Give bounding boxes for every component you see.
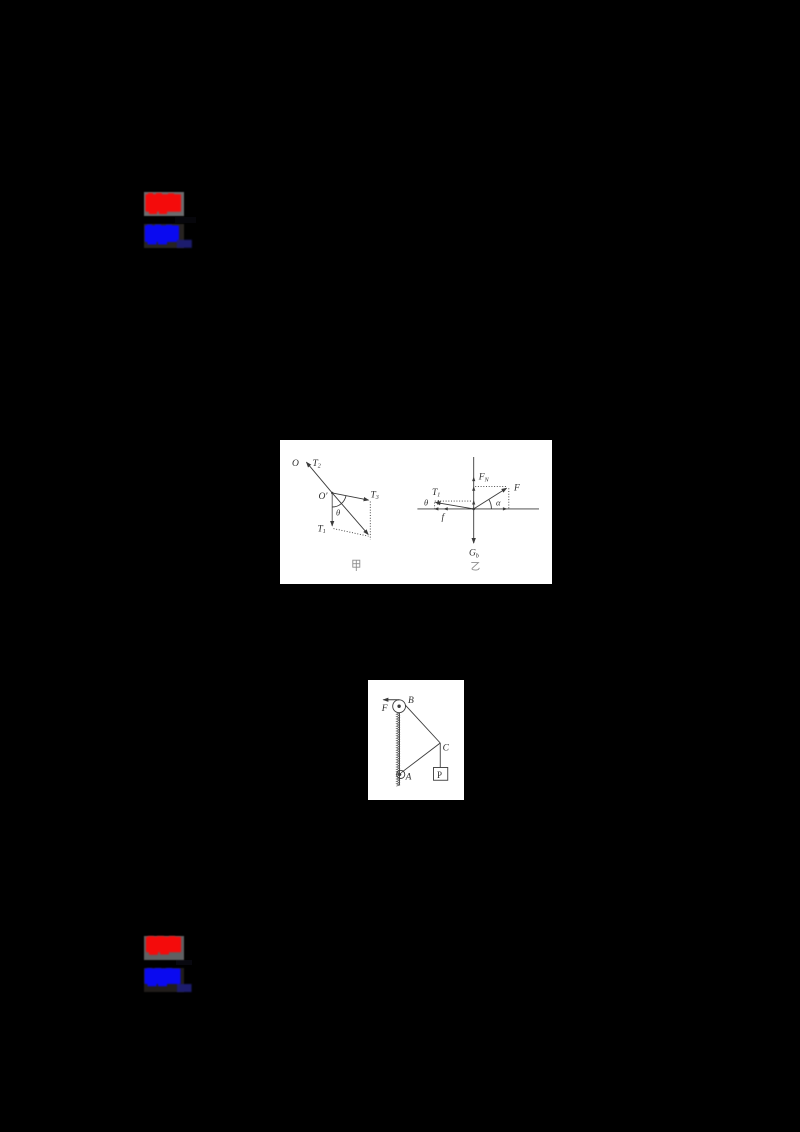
vector T3 (O' to right) <box>332 493 368 500</box>
dotted vertical from T1 tip <box>434 503 436 509</box>
svg-text:FN: FN <box>478 473 490 484</box>
svg-text:O: O <box>292 459 299 469</box>
svg-text:F: F <box>381 704 388 714</box>
arrowhead F horizontal component (right) <box>503 507 508 510</box>
svg-text:T3: T3 <box>371 491 379 502</box>
svg-text:T1: T1 <box>318 525 326 536</box>
navy sub-blob <box>177 240 192 248</box>
node origin dot <box>472 508 475 511</box>
node O' dot <box>331 492 333 494</box>
faint artifact patch bottom <box>176 960 192 965</box>
svg-text:A: A <box>405 772 412 782</box>
svg-text:Gb: Gb <box>469 549 479 560</box>
arrowhead F vertical component <box>472 486 475 491</box>
pulley B circle <box>393 700 406 713</box>
wire rope C to A <box>401 743 440 773</box>
svg-text:C: C <box>443 744 450 754</box>
red label blob top <box>144 192 184 216</box>
angle theta arc <box>332 496 346 507</box>
angle alpha arc <box>489 500 491 509</box>
svg-text:P: P <box>437 770 442 780</box>
white figure panel 1 (diagrams jia and yi) <box>280 440 552 584</box>
svg-text:O′: O′ <box>319 492 329 502</box>
svg-text:θ: θ <box>336 508 340 518</box>
hinge A ring <box>397 770 405 778</box>
svg-text:F: F <box>513 484 520 494</box>
angle theta arc at T1 tip <box>437 500 438 504</box>
block P box <box>434 768 448 781</box>
red label blob bottom <box>144 936 184 960</box>
wire rope C to P <box>439 743 441 768</box>
vector T1 (up-left) <box>436 502 474 509</box>
hinge A dot <box>398 773 401 776</box>
navy sub-blob <box>177 984 192 992</box>
caption yi <box>471 563 479 570</box>
blue label blob top <box>144 224 194 248</box>
dotted horizontal from F tip <box>475 486 507 488</box>
vector G_b (down) <box>473 509 475 543</box>
vector F (rope pulled left) <box>383 699 399 701</box>
arrowhead T1 vertical component <box>472 500 475 505</box>
svg-text:T2: T2 <box>313 459 321 470</box>
answer button (red) bottom <box>144 936 184 960</box>
arrowhead T1 horizontal component (left) <box>443 507 448 510</box>
wire rope B to C <box>405 705 440 743</box>
dotted vertical construction line <box>369 502 371 540</box>
dotted vertical from F tip <box>508 488 510 509</box>
arrowhead F_N on vertical axis <box>472 477 475 482</box>
dotted slant construction line <box>334 529 369 537</box>
svg-text:θ: θ <box>424 498 428 508</box>
rod (hatched) <box>399 713 401 786</box>
vector T1 (O' down) <box>331 493 333 526</box>
wire vertical axis <box>473 457 475 509</box>
vector F (up-right) <box>474 488 507 509</box>
white figure panel 2 (pulley-rod diagram) <box>368 680 464 800</box>
faint artifact patch top <box>175 217 196 223</box>
dotted horizontal from T1 tip <box>435 500 472 502</box>
caption jia <box>353 560 360 571</box>
wire T2 arrow (O' to O) <box>307 462 333 493</box>
pulley axle dot <box>397 705 400 708</box>
analysis button (blue) top <box>144 224 184 248</box>
svg-text:B: B <box>408 696 414 706</box>
wire resultant diagonal (O' to bottom-right) <box>332 493 368 535</box>
svg-text:f: f <box>442 512 446 523</box>
rod hatching zigzag <box>396 713 399 786</box>
analysis button (blue) bottom <box>144 968 184 992</box>
blue label blob bottom <box>144 968 194 992</box>
wire horizontal axis <box>417 508 539 510</box>
svg-text:α: α <box>496 498 501 508</box>
svg-text:T1: T1 <box>432 488 440 499</box>
arrowhead f friction (left) <box>434 507 439 510</box>
answer button (red) top <box>144 192 184 216</box>
